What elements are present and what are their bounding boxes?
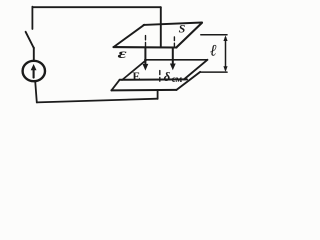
wire source to bottom rail (35, 81, 37, 102)
switch K blade (26, 32, 34, 48)
bottom plate top-face right edge (184, 60, 207, 80)
wire right vertical to top plate (160, 7, 162, 47)
svg-text:E: E (133, 71, 141, 83)
wire switch to source (33, 48, 35, 61)
wire rail up to bottom plate (157, 90, 159, 99)
bottom plate lower front edge (111, 89, 176, 92)
bottom plate top-face left edge (122, 60, 146, 80)
svg-text:см: см (172, 75, 183, 85)
displacement arrow right (172, 48, 174, 65)
svg-text:ε: ε (118, 46, 128, 61)
current source arrow (33, 69, 35, 78)
dashed field line in top plate right (173, 37, 175, 46)
wire top horizontal (32, 6, 160, 8)
current source circle (23, 61, 45, 81)
dimension tick top (201, 34, 227, 36)
axis dashes between plates (159, 71, 161, 82)
bottom plate lower left edge (111, 80, 119, 91)
dimension tick bottom (200, 71, 227, 73)
bottom plate lower right edge (177, 72, 201, 90)
svg-text:ℓ: ℓ (210, 43, 217, 60)
svg-text:δ: δ (164, 69, 171, 84)
dimension arrow l (225, 38, 227, 71)
top plate parallelogram (114, 46, 177, 49)
dashed field line in top plate left (145, 36, 147, 47)
wire bottom rail (37, 99, 158, 103)
svg-text:S: S (179, 22, 186, 36)
bottom plate back edge (middle line) (145, 59, 208, 61)
E field arrow left (144, 48, 146, 65)
wire left vertical upper (31, 7, 33, 29)
bottom plate top-face front edge (120, 78, 187, 80)
